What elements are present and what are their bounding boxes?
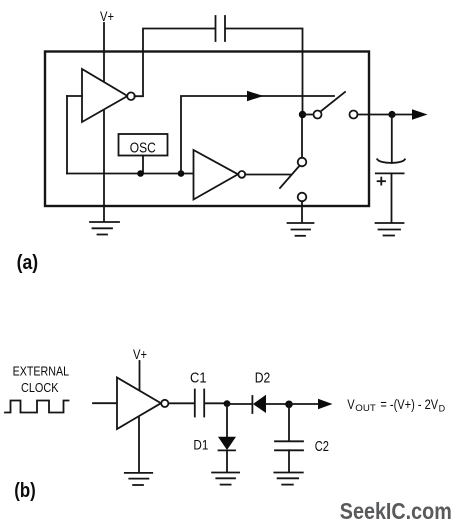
wire output node to reservoir capacitor: [391, 115, 393, 164]
ground at C2: [274, 473, 303, 485]
inverter A3: [117, 378, 161, 430]
wire reservoir capacitor to ground: [391, 174, 393, 223]
reservoir capacitor curved plate: [377, 159, 405, 163]
wire OSC to bus: [142, 156, 144, 174]
ground at S2: [288, 223, 314, 236]
wire A3 ground pin: [138, 418, 140, 472]
diode D1: [218, 437, 236, 450]
node J3: [299, 111, 306, 118]
IC box U1: [45, 52, 369, 207]
wire C1 to node J5: [205, 402, 228, 404]
wire pump capacitor to switch node: [226, 29, 303, 115]
svg-text:V+: V+: [100, 8, 114, 24]
ground at D1: [212, 473, 239, 485]
polarity plus sign: [378, 178, 385, 185]
wire J5 to D2: [227, 403, 252, 405]
wire bus up to drive line: [181, 96, 334, 174]
diode D2: [253, 395, 266, 413]
svg-text:(b): (b): [14, 480, 36, 502]
ground at A3: [125, 473, 152, 485]
wire J3 to S1 pole: [303, 114, 314, 116]
label EXTERNAL CLOCK: [13, 364, 70, 395]
capacitor C2 top plate: [275, 440, 303, 442]
wire D1 to ground: [226, 450, 228, 472]
diode D1 cathode bar: [219, 449, 236, 451]
svg-text:OUT: OUT: [355, 403, 376, 414]
wire J5 to D1: [226, 404, 228, 437]
wire A1 input stub: [67, 95, 82, 97]
wire S2 lower contact to ground: [301, 201, 303, 222]
node J1: [137, 170, 144, 177]
wire oscillator bus: [67, 173, 194, 175]
wire A2 output: [245, 174, 290, 176]
output arrowhead (a): [412, 109, 428, 119]
svg-text:V: V: [347, 396, 355, 412]
formula VOUT: [347, 396, 445, 414]
diode D2 cathode bar: [251, 396, 253, 413]
svg-text:(a): (a): [17, 252, 38, 274]
wire A1 output up to pump capacitor: [135, 29, 216, 97]
svg-text:C2: C2: [315, 438, 329, 455]
oscillator OSC box: [119, 134, 168, 156]
switch S2 lever: [280, 166, 299, 188]
node J2: [178, 170, 185, 177]
pump capacitor left plate: [215, 16, 217, 41]
switch S2 upper contact: [298, 158, 307, 167]
A3 output bubble: [161, 400, 168, 407]
wire V+ supply to buffer: [103, 23, 105, 81]
switch S1 throw contact: [350, 111, 358, 119]
wire S1 to output node: [358, 114, 393, 116]
wire feedback down to bus: [66, 96, 68, 174]
capacitor C1 right plate: [203, 390, 205, 417]
wire A1 ground pin: [103, 111, 105, 222]
output arrowhead (b): [318, 399, 333, 409]
svg-text:D: D: [439, 404, 446, 415]
svg-text:EXTERNAL: EXTERNAL: [13, 364, 70, 378]
switch S1 lever: [321, 92, 345, 111]
inverter A2: [194, 150, 239, 200]
arrowhead on drive line: [247, 91, 264, 101]
svg-text:OSC: OSC: [130, 140, 156, 156]
pump capacitor right plate: [224, 16, 226, 41]
svg-text:D1: D1: [193, 437, 208, 453]
node J5: [224, 400, 231, 407]
output arrow (b): [289, 403, 319, 405]
wire D2 to output node: [266, 403, 289, 405]
capacitor C2 bottom plate: [275, 449, 303, 451]
buffer amplifier A1: [82, 69, 128, 122]
wire A3 output to C1: [169, 402, 195, 404]
wire clock input: [93, 402, 117, 404]
svg-text:D2: D2: [255, 369, 271, 386]
svg-text:CLOCK: CLOCK: [21, 380, 59, 395]
capacitor C1 left plate: [194, 390, 196, 417]
output arrow (a): [392, 114, 413, 116]
switch S2 lower contact: [298, 193, 307, 202]
wire C2 to ground: [288, 450, 290, 472]
svg-text:C1: C1: [190, 369, 207, 386]
reservoir capacitor straight plate: [376, 172, 404, 174]
node J4 output: [388, 111, 395, 118]
ground at reservoir capacitor: [376, 223, 404, 236]
svg-text:SeekIC.com: SeekIC.com: [340, 498, 452, 524]
wire J6 to C2: [288, 404, 290, 441]
A2 output bubble: [238, 171, 245, 178]
A1 output bubble: [127, 92, 135, 100]
wire S2 contact to node J3: [301, 115, 303, 158]
svg-text:= -(V+) - 2V: = -(V+) - 2V: [380, 396, 438, 412]
node J6: [285, 401, 293, 409]
ground at A1: [90, 222, 119, 235]
wire V+ pin A3: [139, 361, 141, 389]
switch S1 pole contact: [314, 111, 322, 119]
clock waveform: [5, 401, 69, 413]
svg-text:V+: V+: [133, 346, 147, 362]
